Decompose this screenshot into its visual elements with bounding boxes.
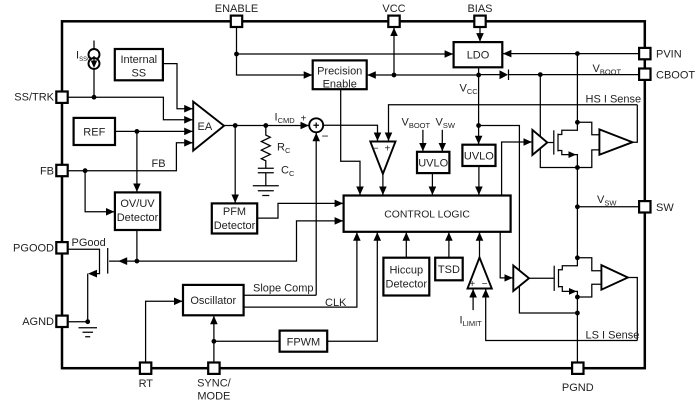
wire LS gate lead	[529, 277, 554, 279]
box PFM Detector	[212, 203, 257, 233]
node VSW junction	[575, 204, 580, 209]
svg-text:Precision: Precision	[317, 66, 362, 78]
wire PGood FET source to AGND	[87, 274, 89, 322]
svg-text:CONTROL LOGIC: CONTROL LOGIC	[384, 210, 470, 221]
node LS source	[575, 295, 580, 300]
svg-text:VCC: VCC	[382, 3, 405, 15]
transistor PGood FET	[68, 249, 100, 273]
border frame of IC	[62, 21, 645, 368]
wire Issc to SS/TRK node	[93, 69, 95, 97]
wire AGND pin line	[68, 321, 88, 323]
node VBOOT junction	[538, 72, 543, 77]
svg-text:+: +	[469, 279, 475, 290]
wire HS gate lead	[547, 142, 554, 144]
wire LS source to PGND	[576, 297, 578, 362]
wire VBOOT arrow into UVLO	[422, 130, 424, 152]
box Internal SS	[115, 49, 163, 80]
node PVIN junction	[575, 51, 580, 56]
svg-text:−: −	[373, 144, 379, 155]
comparator PWM	[370, 142, 395, 174]
svg-text:Internal: Internal	[120, 54, 157, 66]
ground AGND	[79, 328, 98, 337]
node FB junction	[83, 168, 88, 173]
box Precision Enable	[313, 60, 367, 89]
wire PVIN line into LDO right edge	[503, 53, 639, 55]
buffer HS driver	[532, 130, 547, 155]
wire CLK to control logic	[244, 232, 357, 307]
box LDO	[454, 42, 503, 67]
capacitor CC	[258, 168, 274, 172]
wire VBOOT rail left into Precision Enable right edge	[367, 74, 478, 76]
pin CBOOT	[639, 69, 650, 80]
pin BIAS	[474, 16, 485, 27]
pin PVIN	[639, 48, 650, 59]
pin AGND	[56, 316, 67, 327]
wire VCC to LS driver rail	[479, 126, 578, 314]
node ENABLE junction	[234, 52, 239, 57]
resistor RC	[261, 126, 270, 169]
wire PVIN junction down to HS drain	[576, 54, 578, 123]
svg-text:SS/TRK: SS/TRK	[14, 92, 54, 104]
pin PGOOD	[56, 242, 67, 253]
wire FB to EA input 4	[68, 143, 193, 171]
wire OV/UV output down	[136, 230, 138, 261]
pin FB	[56, 165, 67, 176]
wire FPWM to control logic	[327, 232, 377, 341]
box CONTROL LOGIC	[344, 196, 511, 232]
svg-text:UVLO: UVLO	[464, 151, 494, 163]
svg-text:PVIN: PVIN	[656, 49, 682, 61]
wire Precision Enable to control logic	[341, 89, 360, 195]
svg-text:Hiccup: Hiccup	[389, 265, 423, 277]
svg-text:Detector: Detector	[214, 220, 256, 232]
wire VBOOT junction down behind HS driver to FET source rail	[540, 75, 577, 168]
wire VCC junction down	[478, 75, 480, 144]
node VCC lower junction	[476, 123, 481, 128]
svg-text:ENABLE: ENABLE	[215, 3, 258, 15]
svg-text:PGND: PGND	[562, 382, 594, 394]
svg-text:UVLO: UVLO	[418, 158, 448, 170]
wire RT into Oscillator	[146, 301, 183, 362]
node SYNC junction	[212, 339, 217, 344]
wire ENABLE junction to LDO left	[237, 53, 454, 55]
svg-text:Detector: Detector	[117, 212, 159, 224]
wire HS sense amp output up to HS I Sense run	[633, 105, 638, 142]
node REF output junction	[135, 129, 140, 134]
amplifier HS I Sense	[599, 129, 632, 154]
wire REF to EA input 3	[115, 130, 193, 132]
wire FB junction into OV/UV left	[85, 171, 114, 212]
transistor LS FET	[553, 266, 555, 291]
node SS/TRK junction	[92, 95, 97, 100]
wire Internal SS to EA input 1	[163, 64, 193, 109]
svg-text:−: −	[482, 279, 488, 290]
wire SYNC/MODE up into Oscillator	[213, 316, 215, 363]
box UVLO left	[417, 152, 449, 173]
node LDO output junction	[476, 73, 481, 78]
pin SYNC/MODE	[208, 363, 219, 374]
node RC junction	[263, 123, 268, 128]
wire LDO bottom tap	[478, 67, 480, 75]
svg-text:FB: FB	[40, 166, 54, 178]
wire BIAS pin down into LDO	[479, 27, 481, 42]
svg-text:SYNC/: SYNC/	[197, 378, 232, 390]
pin SW	[639, 201, 650, 212]
wire UVLO left output	[431, 173, 433, 195]
svg-text:Slope Comp: Slope Comp	[253, 283, 314, 295]
svg-text:BIAS: BIAS	[467, 3, 492, 15]
op-amp EA	[193, 102, 224, 151]
wire LS sense amp bottom input	[577, 284, 601, 297]
diode D1	[500, 70, 509, 79]
wire slope comp into summing node	[315, 133, 317, 295]
node EA output junction	[233, 123, 238, 128]
wire ENABLE pin down to junction and to Precision Enable	[237, 27, 313, 75]
box TSD	[435, 258, 463, 281]
wire TSD to control logic	[448, 232, 450, 257]
box OV/UV Detector	[115, 192, 160, 230]
wire PFM output into control logic	[257, 203, 343, 218]
svg-text:TSD: TSD	[438, 264, 460, 276]
current source ISSC	[89, 49, 100, 60]
wire VCC rail up into VCC pin	[393, 28, 395, 75]
svg-text:SW: SW	[656, 202, 674, 214]
pin RT	[140, 363, 151, 374]
wire PGood line to control logic	[137, 221, 343, 261]
svg-text:FPWM: FPWM	[287, 336, 321, 348]
wire Issc stub	[93, 41, 95, 50]
wire ILIMIT stub	[472, 289, 474, 310]
summing node	[309, 118, 323, 132]
svg-text:REF: REF	[83, 127, 105, 139]
wire HS source down to SW node	[576, 168, 578, 207]
node LS drain	[575, 255, 580, 260]
wire control logic to HS driver	[502, 142, 532, 196]
svg-text:LDO: LDO	[467, 50, 490, 62]
wire PWM comparator output into control logic	[382, 174, 384, 195]
wire LS sense amp top input	[577, 258, 601, 271]
wire LS I Sense into ILIMIT comparator	[486, 289, 638, 341]
wire UVLO right output	[478, 166, 480, 195]
wire Hiccup to control logic	[405, 232, 407, 257]
svg-text:Enable: Enable	[323, 79, 357, 91]
svg-text:EA: EA	[198, 121, 213, 133]
wire SS/TRK to EA input 2	[68, 97, 193, 120]
node HS drain	[575, 120, 580, 125]
wire LS sense amp output down to LS I Sense run	[628, 278, 637, 341]
wire EA output to summing node	[224, 125, 309, 127]
box FPWM	[280, 331, 328, 352]
svg-text:HS I Sense: HS I Sense	[586, 94, 642, 106]
wire REF junction down into OV/UV	[136, 131, 138, 192]
node OV/UV output junction	[135, 259, 140, 264]
node HS source	[575, 165, 580, 170]
box REF	[74, 118, 115, 145]
ground CC	[253, 186, 279, 196]
wire LDO output to diode	[479, 74, 500, 76]
pin ENABLE	[231, 16, 242, 27]
wire PGood gate line with mid arrow	[109, 260, 137, 262]
svg-text:+: +	[301, 114, 307, 125]
box Hiccup Detector	[383, 258, 429, 296]
comparator ILIMIT	[468, 258, 492, 289]
svg-text:PGood: PGood	[72, 237, 106, 249]
svg-text:CBOOT: CBOOT	[656, 69, 695, 81]
wire HS sense amp bottom input	[577, 150, 599, 168]
wire Slope Comp line	[244, 294, 317, 296]
svg-text:OV/UV: OV/UV	[120, 198, 155, 210]
svg-text:FB: FB	[152, 158, 166, 170]
svg-text:MODE: MODE	[197, 391, 230, 402]
svg-text:AGND: AGND	[22, 316, 54, 328]
transistor HS FET	[553, 130, 555, 154]
svg-text:SS: SS	[131, 68, 146, 80]
pin PGND	[572, 363, 583, 374]
wire summing node to PWM comparator	[323, 125, 377, 141]
buffer LS driver	[513, 266, 529, 292]
node AGND junction	[85, 319, 90, 324]
node LS rail	[575, 311, 580, 316]
wire EA junction down into PFM Detector	[234, 126, 236, 203]
node VCC tap	[392, 73, 397, 78]
amplifier LS I Sense	[601, 265, 628, 290]
svg-text:LS I Sense: LS I Sense	[586, 330, 640, 342]
wire control logic to LS driver	[500, 232, 513, 278]
wire SW node to SW pin	[577, 206, 639, 208]
box Oscillator	[183, 285, 244, 315]
svg-text:RT: RT	[139, 378, 154, 390]
svg-text:−: −	[322, 129, 329, 143]
pin SS/TRK	[56, 92, 67, 103]
wire HS I Sense run into PWM comparator	[389, 105, 638, 141]
svg-text:PFM: PFM	[223, 206, 246, 218]
svg-text:+: +	[385, 144, 391, 155]
svg-text:PGOOD: PGOOD	[13, 243, 54, 255]
wire SYNC junction to FPWM	[214, 340, 280, 342]
wire ILIMIT comparator output	[479, 232, 481, 257]
wire SW node down to LS drain	[576, 207, 578, 258]
wire diode to CBOOT pin	[509, 74, 640, 76]
svg-text:Detector: Detector	[386, 279, 428, 291]
pin VCC	[388, 16, 399, 27]
box UVLO right	[462, 145, 495, 166]
wire HS sense amp top input	[577, 122, 599, 134]
wire VSW arrow into UVLO	[441, 130, 443, 152]
svg-text:Oscillator: Oscillator	[190, 295, 236, 307]
